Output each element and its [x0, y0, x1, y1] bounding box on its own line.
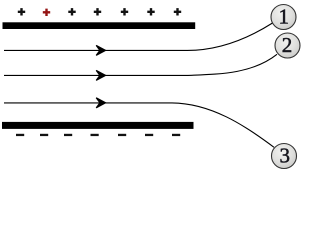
minus sign 7 — [172, 134, 180, 136]
arrowhead on line 3 — [96, 98, 105, 108]
plus sign 1 — [18, 8, 25, 15]
arrowhead on line 1 — [96, 45, 105, 55]
top capacitor plate — [3, 22, 196, 29]
plus sign 6 — [147, 8, 154, 15]
plus sign 5 — [121, 8, 128, 15]
endpoint circle 3 — [272, 144, 297, 169]
minus charge row below bottom plate — [16, 134, 180, 136]
minus sign 5 — [118, 134, 126, 136]
trajectory line 1 (to circle 1) — [4, 23, 273, 50]
plus charge row above top plate — [18, 8, 181, 16]
svg-text:1: 1 — [279, 5, 290, 29]
svg-text:2: 2 — [282, 33, 293, 57]
minus sign 4 — [91, 134, 99, 136]
minus sign 6 — [145, 134, 153, 136]
plus sign 2 (red) — [43, 9, 50, 16]
bottom capacitor plate — [2, 122, 194, 129]
minus sign 2 — [40, 134, 48, 136]
svg-text:3: 3 — [280, 144, 291, 168]
minus sign 3 — [64, 134, 72, 136]
minus sign 1 — [16, 134, 24, 136]
trajectory line 3 (to circle 3) — [4, 103, 274, 147]
trajectory line 2 (to circle 2) — [4, 54, 277, 75]
plus sign 4 — [94, 8, 101, 15]
plus sign 3 — [68, 8, 75, 15]
endpoint circle 2 — [275, 33, 300, 58]
plus sign 7 — [174, 8, 181, 15]
endpoint circle 1 — [271, 5, 296, 30]
arrowhead on line 2 — [96, 70, 105, 80]
